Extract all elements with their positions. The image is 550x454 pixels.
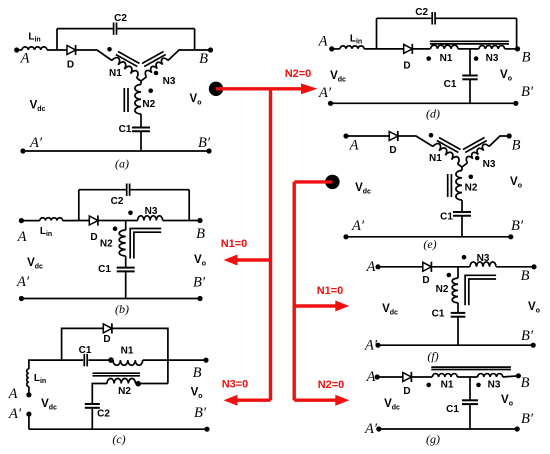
circuit (g) — winding N1 [432,374,457,377]
circuit (b) — polarity dot of N3 [128,211,133,216]
svg-text:B: B [521,268,530,284]
circuit (c) — core lines between N1 and N2 [93,372,141,374]
circuit (c) — node A terminal [28,387,30,395]
svg-text:C2: C2 [415,7,428,18]
circuit (d) — core lines above N1/N3 [430,40,509,42]
svg-text:C1: C1 [440,212,453,223]
circuit (e) — capacitor C1 [453,211,471,213]
circuit (d) — wire Lin to diode [364,48,404,50]
circuit (b) — bottom rail A' to B' [21,298,200,300]
circuit (c) — wire C2 to bottom rail [91,408,93,429]
circuit (b) — winding N2 [125,221,127,231]
circuit (a) — top rail left segment [57,28,113,30]
circuit (f) — capacitor C1 [451,312,466,314]
circuit (g) — wire N1 to N3 junction [457,376,477,378]
circuit (d) — wire N1 to N3 junction [458,48,479,50]
circuit (e) — node A terminal [343,133,348,138]
circuit (e) — wire diode to winding N1 [398,136,433,147]
circuit (e) — wire N3 to node B [489,136,509,147]
circuit (g) — bottom rail A' to B' [379,428,517,430]
svg-text:B: B [199,51,208,67]
circuit (g) — wire C1 to bottom rail [469,404,471,429]
circuit (f) — polarity dot of N3 [462,255,467,260]
svg-text:B′: B′ [521,84,534,100]
circuit (b) — node A terminal [19,218,24,223]
circuit (a) — wire Lin to diode junction [47,49,67,51]
svg-text:N2=0: N2=0 [318,379,345,391]
circuit (d) — wire diode to N1 [412,48,430,50]
svg-text:D: D [403,61,410,72]
circuit (e) — core lines of N1 [439,138,461,150]
svg-text:D: D [403,386,410,397]
circuit (b) — top rail left segment [79,189,126,191]
svg-text:A′: A′ [8,406,22,422]
circuit (c) — top rail right of diode [112,328,168,383]
svg-text:B: B [522,50,531,66]
circuit (d) — top rail right segment [436,17,517,19]
svg-text:A: A [17,229,27,245]
circuit (d) — polarity dot of N1 [426,56,431,61]
circuit (f) — wire N2 to capacitor C1 [457,303,459,313]
circuit (a) — wire top rail down to node B wire [194,29,196,50]
svg-text:(a): (a) [115,157,129,171]
circuit (a) — polarity dot of N1 [107,47,112,52]
circuit (a) — polarity dot of N2 [148,88,153,93]
svg-text:N3=0: N3=0 [222,379,249,391]
circuit (b) — wire top rail down to main line [188,190,190,221]
circuit (c) — wire A' to bottom rail [28,414,30,429]
circuit (c) — bottom rail to B' [29,428,207,430]
svg-text:D: D [422,275,429,286]
circuit (e) — winding N3 [462,163,468,167]
svg-text:B: B [193,365,202,381]
circuit (e) — polarity dot of N1 [429,133,434,138]
svg-text:B′: B′ [193,275,206,291]
svg-text:D: D [90,232,97,243]
svg-text:N1: N1 [121,346,134,357]
circuit (c) — capacitor C1 [83,354,85,366]
circuit (c) — winding N1 [113,360,143,365]
circuit (g) — wire junction to capacitor C1 [469,377,471,400]
circuit (e) — polarity dot of N2 [469,175,474,180]
circuit (e) — bottom rail A' to B' [346,236,511,238]
circuit (d) — node B terminal [515,46,520,51]
circuit (d) — diode D [404,44,413,53]
red line from (e) dot to vertical trunk 2 [294,180,332,183]
circuit (a) — wire junction up to top rail [56,29,58,50]
svg-text:(e): (e) [423,237,436,251]
svg-text:A: A [8,386,18,402]
red arrow to circuit (c), label N3=0 [237,399,271,402]
svg-text:B′: B′ [521,411,534,427]
circuit (b) — wire diode to junction [98,220,138,222]
circuit (a) — capacitor C1 [132,127,150,129]
svg-text:N1: N1 [440,53,453,64]
circuit (e) — core lines of N3 [463,138,485,150]
circuit (f) — wire N3 to node B [496,266,534,268]
circuit (g) — core lines above N1/N3 [431,366,511,368]
circuit (b) — inductor Lin [21,220,39,222]
red source node dot (from circuit e) [325,175,339,189]
circuit (e) — wire C1 to bottom rail [461,216,463,237]
circuit (a) — core lines of N1 [118,52,140,64]
svg-text:N2: N2 [100,239,113,250]
circuit (a) — winding N2 of coupled inductor [140,81,142,85]
circuit (d) — wire top rail down to node B [516,18,518,49]
red vertical trunk line 2 [293,182,296,400]
svg-text:N3: N3 [145,206,158,217]
circuit (d) — wire N3 to node B [505,48,518,50]
circuit (e) — node B terminal [507,133,512,138]
svg-text:N3: N3 [488,380,501,391]
svg-text:(b): (b) [115,302,129,316]
svg-text:B: B [521,375,530,391]
svg-text:(d): (d) [426,107,440,121]
circuit (f) — wire C1 to bottom rail [457,317,459,346]
svg-text:N1: N1 [441,380,454,391]
circuit (a) — wire C1 to bottom rail [140,131,142,151]
circuit (a) — winding N1 of coupled inductor [112,56,140,78]
svg-text:C2: C2 [97,409,110,420]
circuit (d) — node A terminal [329,46,334,51]
circuit (b) — winding N3 [138,216,163,221]
circuit (g) — wire N3 to node B [503,376,519,377]
circuit (g) — node A terminal [375,374,380,379]
red source node dot (from circuit a) [209,82,223,96]
circuit (b) — wire C1 to bottom rail [125,271,127,298]
circuit (c) — node A' terminal [26,412,31,417]
circuit (b) — wire N3 to node B [163,220,200,222]
circuit (e) — polarity dot of N3 [475,156,480,161]
circuit (e) — wire A to diode [346,135,389,137]
circuit (e) — diode D [389,132,398,141]
circuit (d) — polarity dot of N3 [474,56,479,61]
svg-text:(f): (f) [427,349,438,363]
circuit (g) — polarity dot of N3 [476,383,481,388]
circuit (d) — wire C1 to bottom rail [469,79,471,103]
svg-text:N3: N3 [483,159,496,170]
circuit (b) — capacitor C1 [117,267,135,269]
circuit (a) — capacitor C2 [113,22,115,34]
circuit (d) — winding N3 [479,46,505,49]
circuit (f) — node A terminal [375,264,380,269]
circuit (a) — polarity dot of N3 [154,71,159,76]
circuit (g) — node B terminal [516,373,521,378]
svg-text:N2=0: N2=0 [285,68,312,80]
circuit (f) — diode D [423,262,432,271]
circuit (d) — bottom rail A' to B' [331,102,516,104]
circuit (b) — capacitor C2 [126,184,128,196]
circuit (c) — wire N1 to node B [143,359,206,361]
svg-text:B′: B′ [198,135,211,151]
red vertical trunk line 1 [269,89,272,400]
svg-text:N1=0: N1=0 [317,285,344,297]
circuit (b) — L-shaped core lines of N2/N3 [130,229,161,259]
circuit (a) — core lines of N2 [123,88,125,112]
svg-text:C1: C1 [98,264,111,275]
circuit (e) — wire N2 to capacitor C1 [461,200,463,212]
circuit (f) — node B terminal [531,264,536,269]
circuit (f) — bottom rail A' to B' [378,344,533,346]
circuit (a) — node A terminal [14,47,19,52]
circuit (d) — wire junction up to top rail [376,18,378,49]
circuit (f) — polarity dot of N2 [447,273,452,278]
red arrow to circuit (f), label N1=0 [294,304,336,307]
circuit (b) — wire N2 to capacitor C1 [125,256,127,268]
circuit (c) — main line from Lin corner [29,360,83,369]
svg-text:A′: A′ [364,421,378,437]
circuit (a) — core lines of N3 [142,52,164,64]
circuit (a) — inductor Lin [17,49,22,51]
circuit (b) — top rail right segment [130,189,189,191]
svg-text:N1: N1 [109,68,122,79]
circuit (b) — node B terminal [197,218,202,223]
circuit (c) — wire N2 left end down to C2 [92,384,107,405]
svg-text:N3: N3 [477,253,490,264]
circuit (a) — node B terminal [208,47,213,52]
circuit (a) — bottom rail A' to B' [23,150,209,152]
circuit (g) — capacitor C1 [462,399,478,401]
svg-text:C1: C1 [446,404,459,415]
circuit (c) — wire C1 to N1 [88,359,113,361]
svg-text:N2: N2 [436,284,449,295]
circuit (d) — winding N1 [431,45,458,49]
svg-text:B′: B′ [511,218,524,234]
svg-text:N2: N2 [465,183,478,194]
svg-text:A′: A′ [29,135,43,151]
red trunk line from (a) with arrow to (d), label N2=0 [216,87,302,90]
svg-text:A′: A′ [16,274,30,290]
circuit (f) — winding N2 [457,267,459,278]
circuit (d) — capacitor C1 [462,75,477,77]
circuit (f) — wire A to diode [378,266,423,268]
circuit (b) — polarity dot of N2 [113,226,118,231]
svg-text:N1: N1 [429,153,442,164]
circuit (g) — wire diode to N1 [411,376,432,378]
circuit (c) — top rail with diode [62,328,104,360]
circuit (b) — diode D [89,216,98,225]
svg-text:C2: C2 [111,196,124,207]
svg-text:A: A [20,51,30,67]
circuit (c) — polarity dot of N1 (on wire) [108,357,114,363]
svg-text:N3: N3 [486,53,499,64]
circuit (a) — wire N3 to node B [168,50,211,61]
circuit (c) — node B terminal [203,358,208,363]
svg-text:N2: N2 [118,386,131,397]
circuit (c) — diode D [103,324,112,333]
svg-text:A′: A′ [318,85,332,101]
svg-text:A: A [366,369,376,385]
circuit (d) — top rail left segment [377,17,432,19]
svg-text:A′: A′ [364,338,378,354]
svg-text:(g): (g) [426,432,440,446]
svg-text:B′: B′ [194,405,207,421]
circuit (c) — wire N2 right end up to main line [136,383,168,385]
svg-text:A: A [366,259,376,275]
svg-text:(c): (c) [112,432,125,446]
circuit (d) — inductor Lin [332,48,340,50]
svg-text:B: B [196,226,205,242]
circuit (a) — top rail right segment [117,28,194,30]
svg-text:N2: N2 [142,99,155,110]
circuit (a) — diode D [67,46,76,55]
svg-text:C1: C1 [119,124,132,135]
red arrow to circuit (b), label N1=0 [237,258,271,261]
circuit (g) — wire A to diode [377,376,403,378]
circuit (e) — core lines of N2 [447,174,449,197]
circuit (g) — winding N3 [478,374,503,377]
circuit (e) — winding N2 [461,167,463,171]
circuit (c) — winding N2 [107,379,135,384]
svg-text:N1=0: N1=0 [221,238,248,250]
svg-text:C1: C1 [432,309,445,320]
circuit (b) — wire junction up to top rail [78,190,80,221]
svg-text:N3: N3 [163,76,176,87]
circuit (d) — wire junction to capacitor C1 [469,49,471,76]
circuit (f) — winding N3 [470,262,496,267]
circuit (d) — capacitor C2 [431,12,433,24]
svg-text:D: D [103,334,110,345]
red arrow to circuit (g), label N2=0 [294,399,336,402]
svg-text:D: D [67,60,74,71]
circuit (c) — polarity dot of N2 (on wire) [135,381,141,387]
circuit (a) — wire diode to winding N1 [76,50,112,61]
circuit (f) — wire diode to junction [431,266,470,268]
svg-text:C1: C1 [79,345,92,356]
circuit (f) — L-shaped core lines of N2/N3 [465,275,496,305]
circuit (g) — polarity dot of N1 [426,383,431,388]
svg-text:A: A [349,138,359,154]
circuit (a) — winding N3 of coupled inductor [141,77,147,81]
circuit (e) — winding N1 [433,142,461,164]
svg-text:B′: B′ [521,328,534,344]
circuit (a) — wire N2 to capacitor C1 [140,114,142,128]
svg-text:B: B [512,138,521,154]
svg-text:A: A [318,34,328,50]
svg-text:A′: A′ [351,218,365,234]
circuit (c) — inductor Lin (vertical) [27,369,29,387]
circuit (c) — capacitor C2 [85,403,100,405]
circuit (g) — diode D [403,373,412,382]
svg-text:C2: C2 [114,13,127,24]
svg-text:D: D [389,145,396,156]
svg-text:C1: C1 [444,79,457,90]
circuit (b) — wire Lin to diode [63,220,90,222]
